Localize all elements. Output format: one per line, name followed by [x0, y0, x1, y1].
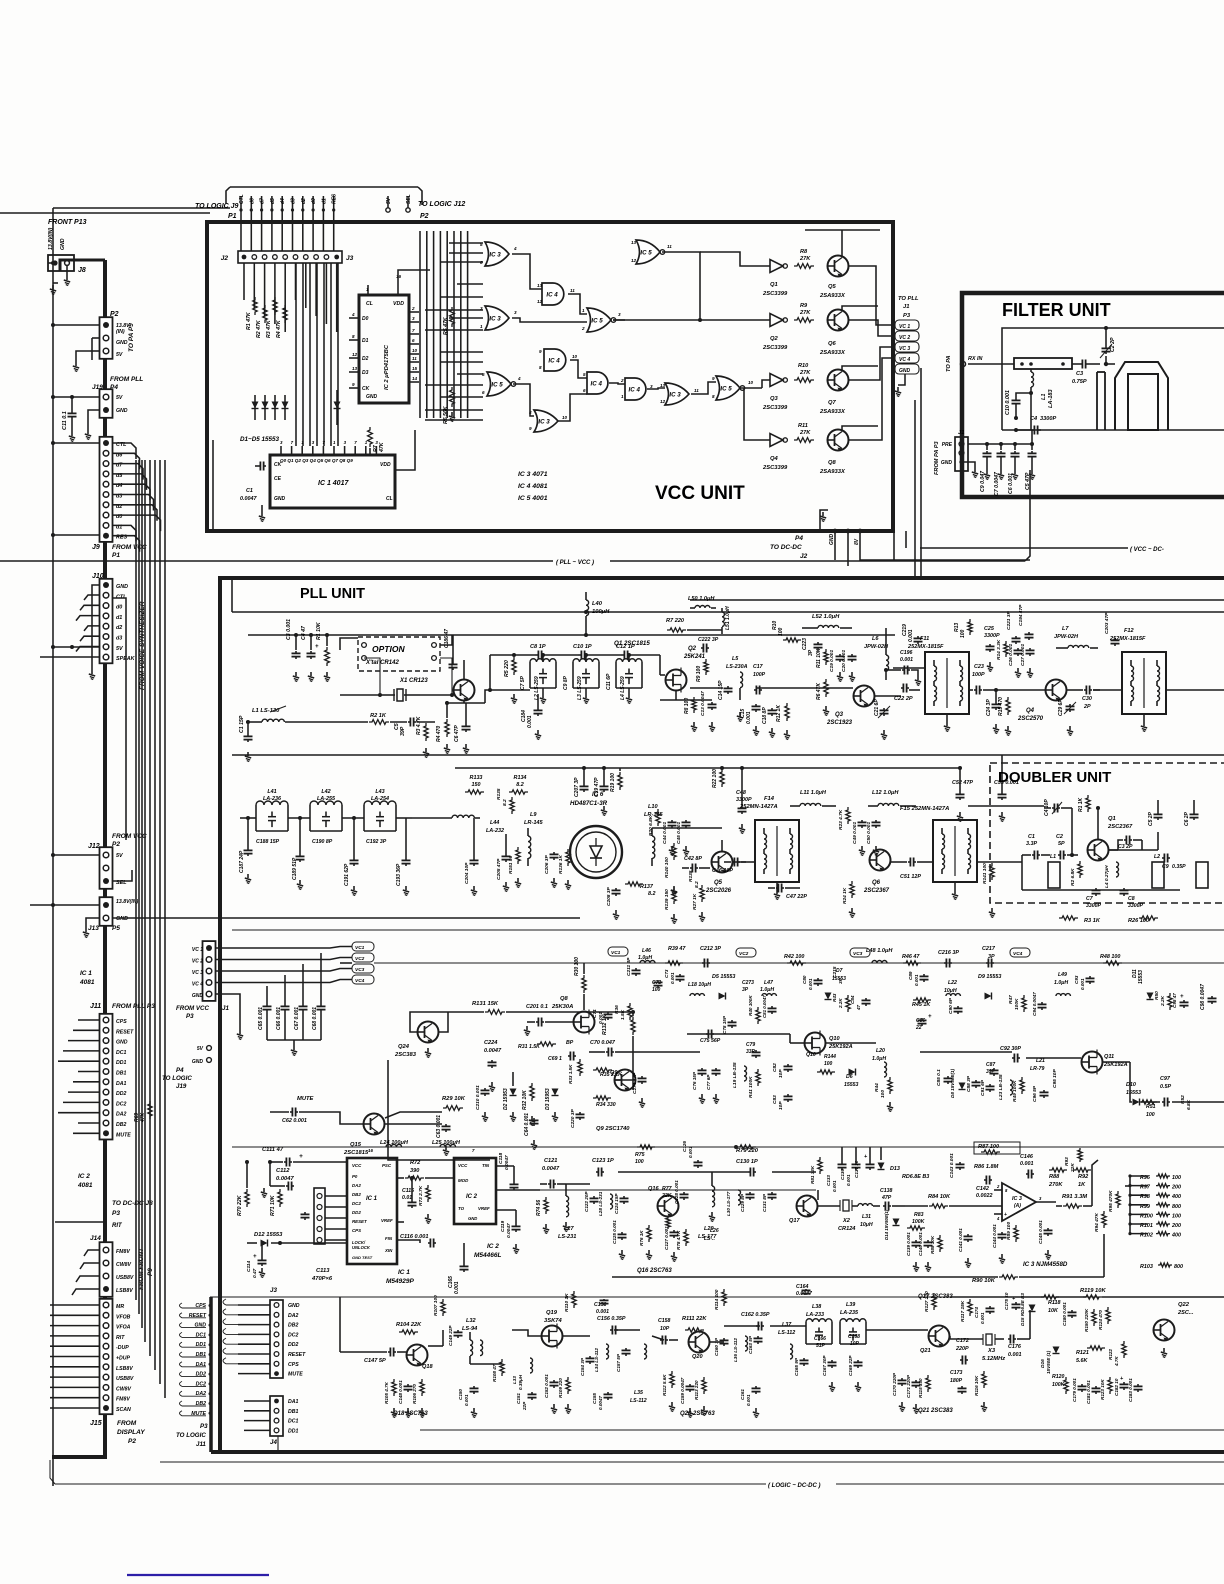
gate IC3 a [485, 242, 509, 266]
svg-text:Q3: Q3 [835, 712, 844, 718]
svg-text:C1 15P: C1 15P [239, 715, 245, 733]
svg-text:FIN: FIN [385, 1236, 393, 1241]
svg-text:R118: R118 [1048, 1300, 1061, 1306]
svg-text:C221 3P: C221 3P [1006, 611, 1012, 630]
wire J14u fanout [84, 1250, 99, 1256]
wire row3 right rails [629, 1051, 631, 1053]
wire pll top rails [232, 611, 1224, 613]
wire IC1 pins [325, 1195, 347, 1197]
svg-text:L7: L7 [1062, 626, 1069, 632]
svg-text:CPS: CPS [288, 1362, 299, 1368]
svg-text:0.47: 0.47 [252, 1268, 258, 1278]
svg-text:C113: C113 [316, 1268, 330, 1274]
svg-text:R50: R50 [1154, 991, 1160, 1000]
svg-text:2SA933X: 2SA933X [819, 409, 846, 415]
svg-text:0.001: 0.001 [527, 715, 533, 728]
svg-text:2SC1815: 2SC1815 [343, 1150, 369, 1156]
svg-text:4081: 4081 [79, 979, 95, 986]
svg-text:C97: C97 [1160, 1076, 1171, 1082]
capacitor C186 47 [452, 662, 454, 664]
svg-text:J1: J1 [222, 1005, 229, 1012]
svg-text:C137 10: C137 10 [854, 1160, 859, 1178]
svg-text:3: 3 [480, 306, 483, 311]
VCC UNIT box [207, 222, 893, 531]
svg-text:R134: R134 [514, 775, 527, 781]
svg-text:XIN: XIN [384, 1248, 393, 1253]
svg-text:R115 330: R115 330 [918, 1378, 923, 1398]
svg-text:IC 5 4001: IC 5 4001 [518, 495, 548, 502]
svg-text:C8 1P: C8 1P [530, 644, 546, 650]
svg-text:252MX-1815F: 252MX-1815F [907, 644, 944, 650]
svg-text:C8: C8 [1128, 896, 1135, 902]
svg-text:4: 4 [513, 246, 517, 251]
svg-text:16: 16 [368, 1148, 373, 1153]
svg-text:L5: L5 [732, 656, 739, 662]
svg-text:C3: C3 [1076, 371, 1084, 377]
svg-text:DB1: DB1 [116, 1071, 126, 1077]
svg-text:3P: 3P [838, 977, 844, 984]
svg-text:DC2: DC2 [352, 1201, 361, 1206]
svg-text:2SC383: 2SC383 [394, 1052, 417, 1058]
svg-text:+: + [1180, 994, 1184, 1000]
transistor Q17 2SC383 [797, 1196, 818, 1217]
svg-text:TO LOGIC: TO LOGIC [176, 1432, 206, 1439]
ground J1 [962, 462, 976, 468]
svg-text:IC 1: IC 1 [80, 970, 92, 977]
connector P2 pins 5V SEL [386, 208, 390, 212]
svg-text:R48 100: R48 100 [1100, 954, 1120, 960]
svg-text:C166: C166 [814, 1336, 826, 1342]
gate IC5 c [487, 372, 511, 396]
svg-text:IC 4: IC 4 [629, 386, 641, 393]
wire rail 963 [340, 962, 352, 964]
svg-text:Q16: Q16 [648, 1186, 659, 1192]
svg-text:11: 11 [412, 356, 417, 361]
svg-text:R113 220: R113 220 [694, 1380, 699, 1400]
svg-text:L44: L44 [490, 820, 499, 826]
svg-text:L10: L10 [648, 804, 659, 810]
svg-text:Q1: Q1 [1108, 816, 1116, 822]
svg-text:13: 13 [352, 366, 358, 371]
svg-text:1K: 1K [1078, 1182, 1086, 1188]
svg-text:J2: J2 [800, 553, 808, 560]
svg-text:VC 3: VC 3 [899, 346, 910, 352]
svg-text:1: 1 [480, 324, 483, 329]
svg-text:J1: J1 [958, 430, 964, 436]
svg-text:25K192A: 25K192A [828, 1044, 853, 1050]
connector P1 pin ticks [240, 196, 242, 222]
svg-text:d6: d6 [249, 198, 255, 204]
svg-text:47K: 47K [379, 441, 385, 453]
svg-text:3SK74: 3SK74 [544, 1318, 563, 1324]
svg-text:C91 6P: C91 6P [980, 1079, 986, 1096]
svg-text:USB8V: USB8V [116, 1376, 134, 1382]
svg-text:C156 0.35P: C156 0.35P [597, 1316, 626, 1322]
svg-text:9: 9 [529, 426, 532, 431]
connector header row4 [314, 1188, 325, 1244]
svg-text:R119 10K: R119 10K [1080, 1288, 1106, 1294]
svg-text:R4 47K: R4 47K [276, 319, 282, 338]
svg-text:VCC: VCC [458, 1163, 468, 1168]
FILTER UNIT box [962, 293, 1224, 497]
svg-text:0.0047: 0.0047 [506, 1223, 512, 1238]
svg-text:14: 14 [412, 376, 418, 381]
svg-text:R12 1K: R12 1K [776, 705, 782, 722]
svg-text:R76 1K: R76 1K [639, 1230, 644, 1246]
buffer Q2 2SC3399 [770, 314, 783, 327]
svg-text:9: 9 [712, 376, 715, 381]
svg-text:IC 5: IC 5 [591, 317, 603, 324]
svg-text:2SC3399: 2SC3399 [762, 405, 788, 411]
svg-text:R43: R43 [832, 993, 837, 1002]
inductor L3 doubler [1196, 862, 1208, 888]
svg-text:C140 0.001: C140 0.001 [918, 1232, 923, 1256]
capacitor C4 3300P [1031, 429, 1034, 431]
svg-text:C125 0.001: C125 0.001 [612, 1220, 617, 1244]
svg-text:C79: C79 [746, 1042, 755, 1048]
svg-text:180P: 180P [950, 1378, 963, 1384]
svg-text:GND: GND [274, 496, 286, 502]
wire right verticals VCC to PLL [914, 400, 916, 578]
svg-text:R26 100: R26 100 [1128, 918, 1150, 924]
svg-text:LS-112: LS-112 [778, 1330, 795, 1336]
svg-text:L6: L6 [872, 636, 879, 642]
svg-text:0.0047: 0.0047 [240, 496, 257, 502]
svg-text:FM8V: FM8V [116, 1397, 130, 1403]
svg-text:L43: L43 [375, 789, 384, 795]
svg-text:11: 11 [694, 388, 699, 393]
svg-text:R22 100: R22 100 [712, 769, 718, 788]
svg-text:5: 5 [482, 372, 485, 377]
svg-text:Q8: Q8 [560, 996, 569, 1002]
svg-text:C30: C30 [1082, 696, 1092, 702]
svg-text:3P: 3P [742, 987, 749, 993]
svg-text:Q9 2SC1740: Q9 2SC1740 [596, 1126, 630, 1132]
wire PRE rail [968, 443, 1032, 445]
diode D5 [336, 390, 338, 425]
svg-text:C190 8P: C190 8P [312, 839, 333, 845]
svg-text:LR-145: LR-145 [524, 820, 544, 826]
svg-text:VCC UNIT: VCC UNIT [655, 483, 745, 504]
svg-text:L1: L1 [1041, 393, 1047, 400]
filter crystal outline [1115, 362, 1168, 430]
svg-text:C118: C118 [498, 1153, 504, 1164]
ground P4 [820, 510, 828, 531]
svg-text:5P: 5P [1058, 841, 1065, 847]
svg-text:2SA933X: 2SA933X [819, 469, 846, 475]
svg-text:(IN): (IN) [116, 329, 125, 335]
svg-text:C176: C176 [1008, 1344, 1022, 1350]
svg-text:R75: R75 [635, 1152, 645, 1158]
svg-text:51P: 51P [816, 1343, 826, 1349]
svg-text:15553: 15553 [1126, 1090, 1141, 1096]
svg-text:2SC2367: 2SC2367 [863, 888, 890, 894]
svg-text:R139 150: R139 150 [664, 889, 670, 910]
svg-text:IC 5: IC 5 [640, 249, 652, 256]
svg-text:0.35P: 0.35P [1172, 864, 1186, 870]
svg-text:LA-232: LA-232 [486, 828, 504, 834]
svg-text:12: 12 [537, 299, 543, 304]
gate IC3 c [665, 383, 689, 405]
svg-text:DC1: DC1 [116, 1050, 126, 1056]
svg-text:J2: J2 [221, 255, 229, 262]
diode D3 [274, 395, 276, 420]
svg-text:R46 47: R46 47 [902, 954, 920, 960]
svg-text:7: 7 [412, 328, 415, 333]
wire xtal rail [340, 694, 380, 696]
svg-text:15V50E (1): 15V50E (1) [1046, 1350, 1051, 1374]
svg-text:C146: C146 [1020, 1154, 1034, 1160]
svg-text:DD1: DD1 [288, 1428, 298, 1434]
connector J2 J3 row [238, 251, 342, 263]
gate IC4 d [625, 378, 646, 400]
svg-text:MUTE: MUTE [116, 1132, 131, 1138]
svg-text:22K: 22K [1070, 1163, 1076, 1173]
svg-text:Q8: Q8 [828, 460, 837, 466]
resistor R5 47K [450, 307, 455, 327]
svg-text:L11 1.0μH: L11 1.0μH [800, 790, 827, 796]
svg-text:C7: C7 [1086, 896, 1094, 902]
svg-text:R44: R44 [874, 1083, 880, 1092]
svg-text:d1: d1 [321, 198, 327, 204]
svg-text:UNLOCK: UNLOCK [352, 1245, 371, 1250]
svg-text:L3 LS-259: L3 LS-259 [577, 676, 583, 700]
svg-text:Q11: Q11 [1104, 1054, 1114, 1060]
svg-text:R88: R88 [1049, 1174, 1060, 1180]
svg-text:L39: L39 [846, 1302, 855, 1308]
svg-text:R84 10K: R84 10K [928, 1194, 951, 1200]
svg-text:DB2: DB2 [288, 1323, 298, 1329]
svg-text:5V: 5V [116, 853, 123, 859]
svg-text:C88 3P: C88 3P [966, 1075, 972, 1092]
svg-text:CW8V: CW8V [116, 1262, 132, 1268]
svg-text:0.001: 0.001 [1080, 978, 1085, 990]
svg-text:GND: GND [192, 993, 204, 999]
svg-text:IC 4: IC 4 [546, 291, 558, 298]
svg-text:9: 9 [352, 382, 355, 387]
svg-text:MUTE: MUTE [288, 1372, 303, 1378]
svg-text:R141 100: R141 100 [982, 863, 988, 884]
svg-text:C50 0.001: C50 0.001 [866, 822, 872, 844]
svg-text:0.001: 0.001 [908, 629, 914, 642]
svg-text:P1: P1 [112, 552, 120, 559]
svg-text:IC 3: IC 3 [489, 315, 501, 322]
svg-text:IC 5: IC 5 [720, 385, 732, 392]
svg-text:4081: 4081 [77, 1182, 93, 1189]
svg-text:L47: L47 [764, 980, 774, 986]
svg-text:C223: C223 [802, 638, 808, 650]
svg-text:d1: d1 [116, 615, 122, 621]
svg-text:VFOA: VFOA [116, 1325, 131, 1331]
svg-text:15553: 15553 [1138, 970, 1144, 984]
capacitor C8 1P [535, 654, 538, 656]
net tab VC3 row3 [352, 964, 374, 973]
svg-text:D5 15553: D5 15553 [712, 974, 735, 980]
svg-text:R72: R72 [410, 1160, 421, 1166]
svg-text:OPTION: OPTION [372, 644, 405, 654]
svg-text:DB1: DB1 [288, 1409, 298, 1415]
wire Q1 out to filters [485, 690, 530, 703]
svg-text:+DUP: +DUP [116, 1356, 131, 1362]
transistor Q16 2SC763 [658, 1196, 679, 1217]
svg-text:C7 0.0047: C7 0.0047 [994, 471, 1000, 496]
connector J13 P5 13.8V GND [100, 897, 113, 926]
svg-text:10μH: 10μH [944, 988, 957, 994]
svg-text:D0: D0 [362, 316, 369, 322]
svg-text:4: 4 [351, 312, 355, 317]
gate IC4 a [542, 283, 564, 305]
svg-text:DISPLAY: DISPLAY [117, 1429, 145, 1436]
net tab GND [895, 364, 919, 374]
resistor R7 47K [368, 427, 373, 447]
svg-text:L2: L2 [1154, 854, 1160, 860]
svg-text:CPS: CPS [352, 1228, 361, 1233]
inductor L52 [818, 625, 839, 628]
svg-text:CTL: CTL [239, 194, 245, 204]
svg-text:R133: R133 [470, 775, 483, 781]
svg-text:1: 1 [366, 287, 369, 292]
svg-text:P3: P3 [186, 1013, 194, 1020]
svg-text:C70 0.047: C70 0.047 [590, 1040, 616, 1046]
svg-text:d3: d3 [291, 198, 297, 204]
svg-text:C158: C158 [658, 1318, 671, 1324]
svg-text:C171 220P: C171 220P [906, 1374, 911, 1398]
svg-text:C152 0.001: C152 0.001 [544, 1374, 549, 1398]
svg-text:C13 0.0047: C13 0.0047 [700, 691, 706, 716]
svg-text:F11: F11 [920, 636, 929, 642]
svg-text:R45 1K: R45 1K [912, 1002, 931, 1008]
wire gates left verticals [419, 231, 421, 418]
svg-text:C73: C73 [664, 969, 669, 978]
wire to Q2 [659, 655, 661, 675]
svg-text:d3: d3 [116, 636, 122, 642]
ground J10 [92, 585, 99, 670]
svg-text:Q1: Q1 [770, 282, 778, 288]
svg-text:Q5: Q5 [714, 880, 723, 886]
svg-text:C193 36P: C193 36P [396, 863, 402, 886]
svg-text:5: 5 [583, 372, 586, 377]
svg-text:200: 200 [1171, 1223, 1181, 1229]
connector J1 FROM VCC P3 [203, 941, 216, 1001]
svg-text:LR-79: LR-79 [1030, 1066, 1045, 1072]
svg-text:D1~D5 15553: D1~D5 15553 [240, 436, 280, 443]
svg-text:P2: P2 [128, 1438, 136, 1445]
IC1 4017 [270, 455, 395, 508]
svg-text:FROM PLL P3: FROM PLL P3 [112, 1003, 155, 1010]
svg-text:2SC3399: 2SC3399 [762, 345, 788, 351]
inductor L1 LA-183 [968, 363, 1014, 365]
svg-text:DC2: DC2 [288, 1332, 298, 1338]
svg-text:TO: TO [458, 1206, 465, 1211]
svg-text:PLL UNIT: PLL UNIT [300, 586, 365, 602]
svg-text:D2 15953: D2 15953 [503, 1088, 509, 1110]
svg-text:IC 3: IC 3 [489, 251, 501, 258]
svg-text:GND: GND [116, 916, 128, 922]
svg-text:X2: X2 [842, 1218, 851, 1224]
svg-text:VREF: VREF [381, 1218, 393, 1223]
svg-text:M54466L: M54466L [474, 1252, 501, 1259]
svg-text:C131 8P: C131 8P [762, 1193, 767, 1212]
svg-text:+: + [315, 644, 319, 650]
wire row1 top link [490, 654, 535, 656]
svg-text:L23 LB-135: L23 LB-135 [998, 1074, 1004, 1100]
svg-text:C173: C173 [950, 1370, 963, 1376]
svg-text:13.8V(IN): 13.8V(IN) [116, 899, 138, 905]
svg-text:R105 4.7K: R105 4.7K [384, 1381, 389, 1404]
label VCC~DC [920, 547, 1128, 549]
svg-text:L12 1.0μH: L12 1.0μH [872, 790, 899, 796]
svg-text:L51 1.0μH: L51 1.0μH [725, 606, 731, 630]
svg-text:3.3P: 3.3P [1026, 841, 1037, 847]
svg-text:R49 100K: R49 100K [1012, 1080, 1018, 1102]
svg-text:DA2: DA2 [116, 1112, 126, 1118]
svg-text:C204 10P: C204 10P [464, 862, 470, 884]
svg-text:J14: J14 [90, 1235, 101, 1242]
svg-text:R140 100: R140 100 [664, 857, 670, 878]
svg-text:D3 15953: D3 15953 [545, 1088, 551, 1110]
svg-text:IC 4: IC 4 [548, 357, 560, 364]
svg-text:L50 1.0μH: L50 1.0μH [688, 596, 715, 602]
svg-text:1.0μH: 1.0μH [760, 987, 774, 993]
svg-text:D8 15V50E(1): D8 15V50E(1) [950, 1068, 955, 1098]
svg-text:R94 47K: R94 47K [1094, 1213, 1100, 1232]
svg-text:R109 220: R109 220 [558, 1378, 563, 1398]
svg-text:C128 0.001: C128 0.001 [674, 1180, 679, 1204]
svg-text:R31 1.5K: R31 1.5K [518, 1044, 541, 1050]
svg-text:DA2: DA2 [288, 1313, 298, 1319]
svg-text:100: 100 [824, 1061, 833, 1067]
svg-text:C126: C126 [682, 1141, 687, 1152]
svg-text:TO PA P9: TO PA P9 [128, 323, 135, 352]
svg-text:M54929P: M54929P [386, 1278, 414, 1285]
svg-text:Q24: Q24 [398, 1044, 410, 1050]
svg-text:R30 100: R30 100 [574, 957, 580, 976]
svg-text:JPW-02H: JPW-02H [1054, 634, 1079, 640]
svg-text:R107 100: R107 100 [433, 1295, 439, 1316]
svg-text:C201 0.1: C201 0.1 [526, 1004, 548, 1010]
svg-text:13: 13 [631, 240, 637, 245]
svg-text:C76 15P: C76 15P [692, 1071, 697, 1090]
svg-text:0.0022: 0.0022 [976, 1193, 993, 1199]
svg-text:J8: J8 [78, 267, 86, 274]
node RX IN [960, 361, 965, 366]
svg-text:2: 2 [411, 306, 415, 311]
svg-text:12: 12 [660, 399, 666, 404]
svg-text:GND: GND [899, 368, 911, 374]
svg-text:220P: 220P [955, 1346, 969, 1352]
fet Q11 25K192A [1082, 1052, 1103, 1073]
svg-text:C217: C217 [982, 946, 996, 952]
svg-text:R11: R11 [798, 423, 808, 429]
svg-text:J12: J12 [88, 843, 100, 850]
svg-text:R47: R47 [1008, 995, 1014, 1004]
svg-text:10: 10 [748, 380, 754, 385]
svg-text:100: 100 [880, 1090, 886, 1098]
svg-text:TO LOGIC J12: TO LOGIC J12 [418, 201, 465, 208]
svg-text:13.8V(IN): 13.8V(IN) [48, 228, 54, 250]
svg-text:X'tal CR142: X'tal CR142 [365, 660, 399, 666]
svg-text:C192 3P: C192 3P [366, 839, 387, 845]
svg-text:R24 1K: R24 1K [842, 887, 848, 904]
OPTION dashed box [358, 637, 440, 671]
svg-text:R14 3.3K: R14 3.3K [996, 639, 1002, 660]
svg-text:C112: C112 [276, 1168, 290, 1174]
connector J14 lower (11 pin) [100, 1299, 113, 1414]
svg-text:C29 6P: C29 6P [1058, 699, 1064, 716]
svg-text:P4: P4 [176, 1067, 184, 1074]
svg-text:CK: CK [362, 386, 370, 392]
svg-text:C64 0.001: C64 0.001 [524, 1113, 530, 1136]
